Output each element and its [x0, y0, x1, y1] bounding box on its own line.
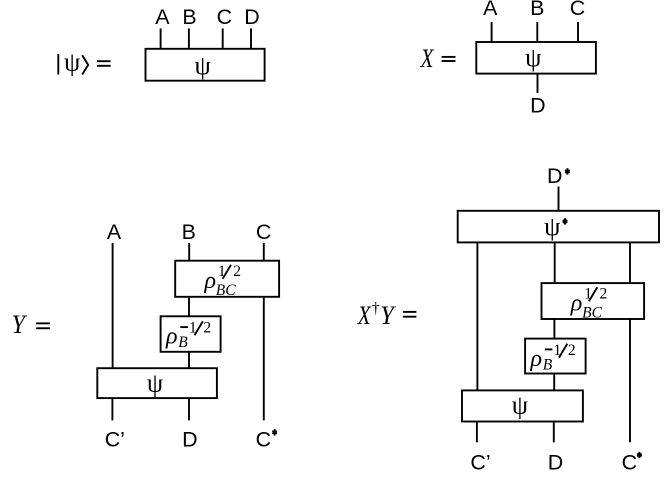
svg-text:X: X: [420, 44, 435, 73]
svg-text:B: B: [178, 334, 188, 351]
node C*: [622, 451, 642, 475]
wire C* column (passes behind rho_BC box): [629, 242, 631, 442]
svg-text:ψ: ψ: [544, 212, 560, 241]
node C*: [256, 428, 277, 452]
box psi (top-left): [146, 49, 265, 81]
label equals: [97, 61, 111, 66]
box psi (bottom-left): [97, 368, 217, 398]
svg-text:C: C: [622, 451, 637, 475]
svg-text:D: D: [182, 428, 197, 452]
svg-text:ρ: ρ: [204, 268, 217, 294]
svg-text:C’: C’: [105, 428, 125, 452]
svg-text:D: D: [547, 164, 562, 188]
svg-text:X: X: [357, 301, 372, 330]
svg-text:C: C: [256, 220, 271, 244]
wire D leg below psi: [553, 422, 555, 443]
wire D column between rho boxes: [553, 319, 555, 339]
wire D column psi* to rho_BC: [554, 242, 556, 283]
svg-text:2: 2: [203, 320, 211, 337]
svg-text:D: D: [244, 5, 259, 29]
label equals: [36, 323, 50, 328]
wire B column rho_B to psi: [188, 352, 190, 368]
svg-text:ψ: ψ: [512, 391, 528, 420]
svg-text:Y: Y: [380, 301, 396, 330]
wire C column (passes behind rho_BC box): [263, 243, 265, 420]
wire C' leg below psi: [111, 398, 113, 420]
wire leg B (top-left): [188, 28, 190, 48]
wire leg C (top-left): [222, 28, 224, 48]
wire D* leg: [558, 187, 560, 211]
box psi (top-right): [476, 42, 596, 74]
wire leg A (top-right): [491, 22, 493, 42]
node D* (top): [547, 164, 570, 188]
svg-text:A: A: [483, 0, 498, 20]
box psi* (bottom-right): [458, 211, 659, 243]
wire C' column (psi* to psi): [476, 242, 478, 390]
box rho_BC^1/2 (bottom-left): [175, 261, 279, 297]
wire B column between rho boxes: [188, 297, 190, 317]
wire leg D (top-left): [250, 28, 252, 48]
svg-text:†: †: [372, 300, 380, 317]
wire B leg to rho_BC: [188, 243, 190, 261]
wire A column: [112, 243, 114, 368]
svg-text:C’: C’: [470, 451, 490, 475]
label equals: [442, 57, 456, 61]
svg-text:B: B: [530, 0, 544, 20]
svg-text:A: A: [155, 5, 170, 29]
wire leg D (top-right, below box): [537, 74, 539, 93]
svg-text:ψ: ψ: [525, 43, 541, 72]
label rangle: [82, 55, 88, 74]
svg-text:C: C: [217, 5, 232, 29]
wire leg B (top-right): [536, 22, 538, 42]
box rho_B^-1/2 (bottom-left): [161, 316, 221, 352]
svg-text:B: B: [182, 220, 196, 244]
wire leg C (top-right): [577, 22, 579, 42]
label ket bar: [57, 54, 59, 75]
svg-text:D: D: [548, 451, 563, 475]
wire D column rho_B to psi: [553, 374, 555, 391]
wire D leg below psi: [188, 398, 190, 420]
svg-text:ρ: ρ: [165, 324, 178, 350]
svg-text:D: D: [530, 94, 545, 118]
box rho_B^-1/2 (bottom-right): [525, 339, 586, 374]
svg-text:C: C: [256, 428, 271, 452]
wire C' leg below psi: [476, 422, 478, 443]
box rho_BC^1/2 (bottom-right): [542, 283, 645, 319]
svg-text:Y: Y: [12, 310, 28, 339]
box psi (bottom-right): [462, 390, 583, 421]
svg-text:2: 2: [233, 263, 241, 280]
svg-text:ψ: ψ: [194, 51, 210, 80]
svg-text:BC: BC: [216, 282, 236, 299]
svg-text:A: A: [107, 220, 122, 244]
svg-text:B: B: [182, 5, 196, 29]
wire leg A (top-left): [160, 28, 162, 48]
label equals: [403, 312, 417, 317]
svg-text:C: C: [570, 0, 585, 20]
svg-text:ψ: ψ: [147, 368, 163, 397]
svg-text:ψ: ψ: [64, 48, 80, 77]
